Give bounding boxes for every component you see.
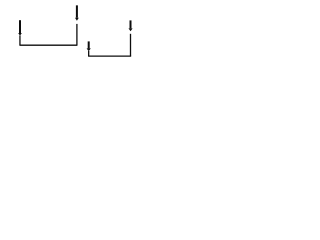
pin arrow P3 (left leg of net 2) — [87, 41, 91, 56]
pin arrow P4 (top of right leg of net 2) — [129, 20, 133, 31]
wire W2a (right vertical of net 2) — [130, 34, 132, 56]
pin arrow P1 (left leg of net 1) — [18, 20, 22, 45]
wire W1a (right vertical of net 1) — [76, 24, 78, 45]
wire W2 (horizontal net 2) — [88, 55, 131, 57]
wire W1 (horizontal net 1) — [19, 44, 77, 46]
pin arrow P2 (top of right leg of net 1) — [75, 5, 79, 20]
